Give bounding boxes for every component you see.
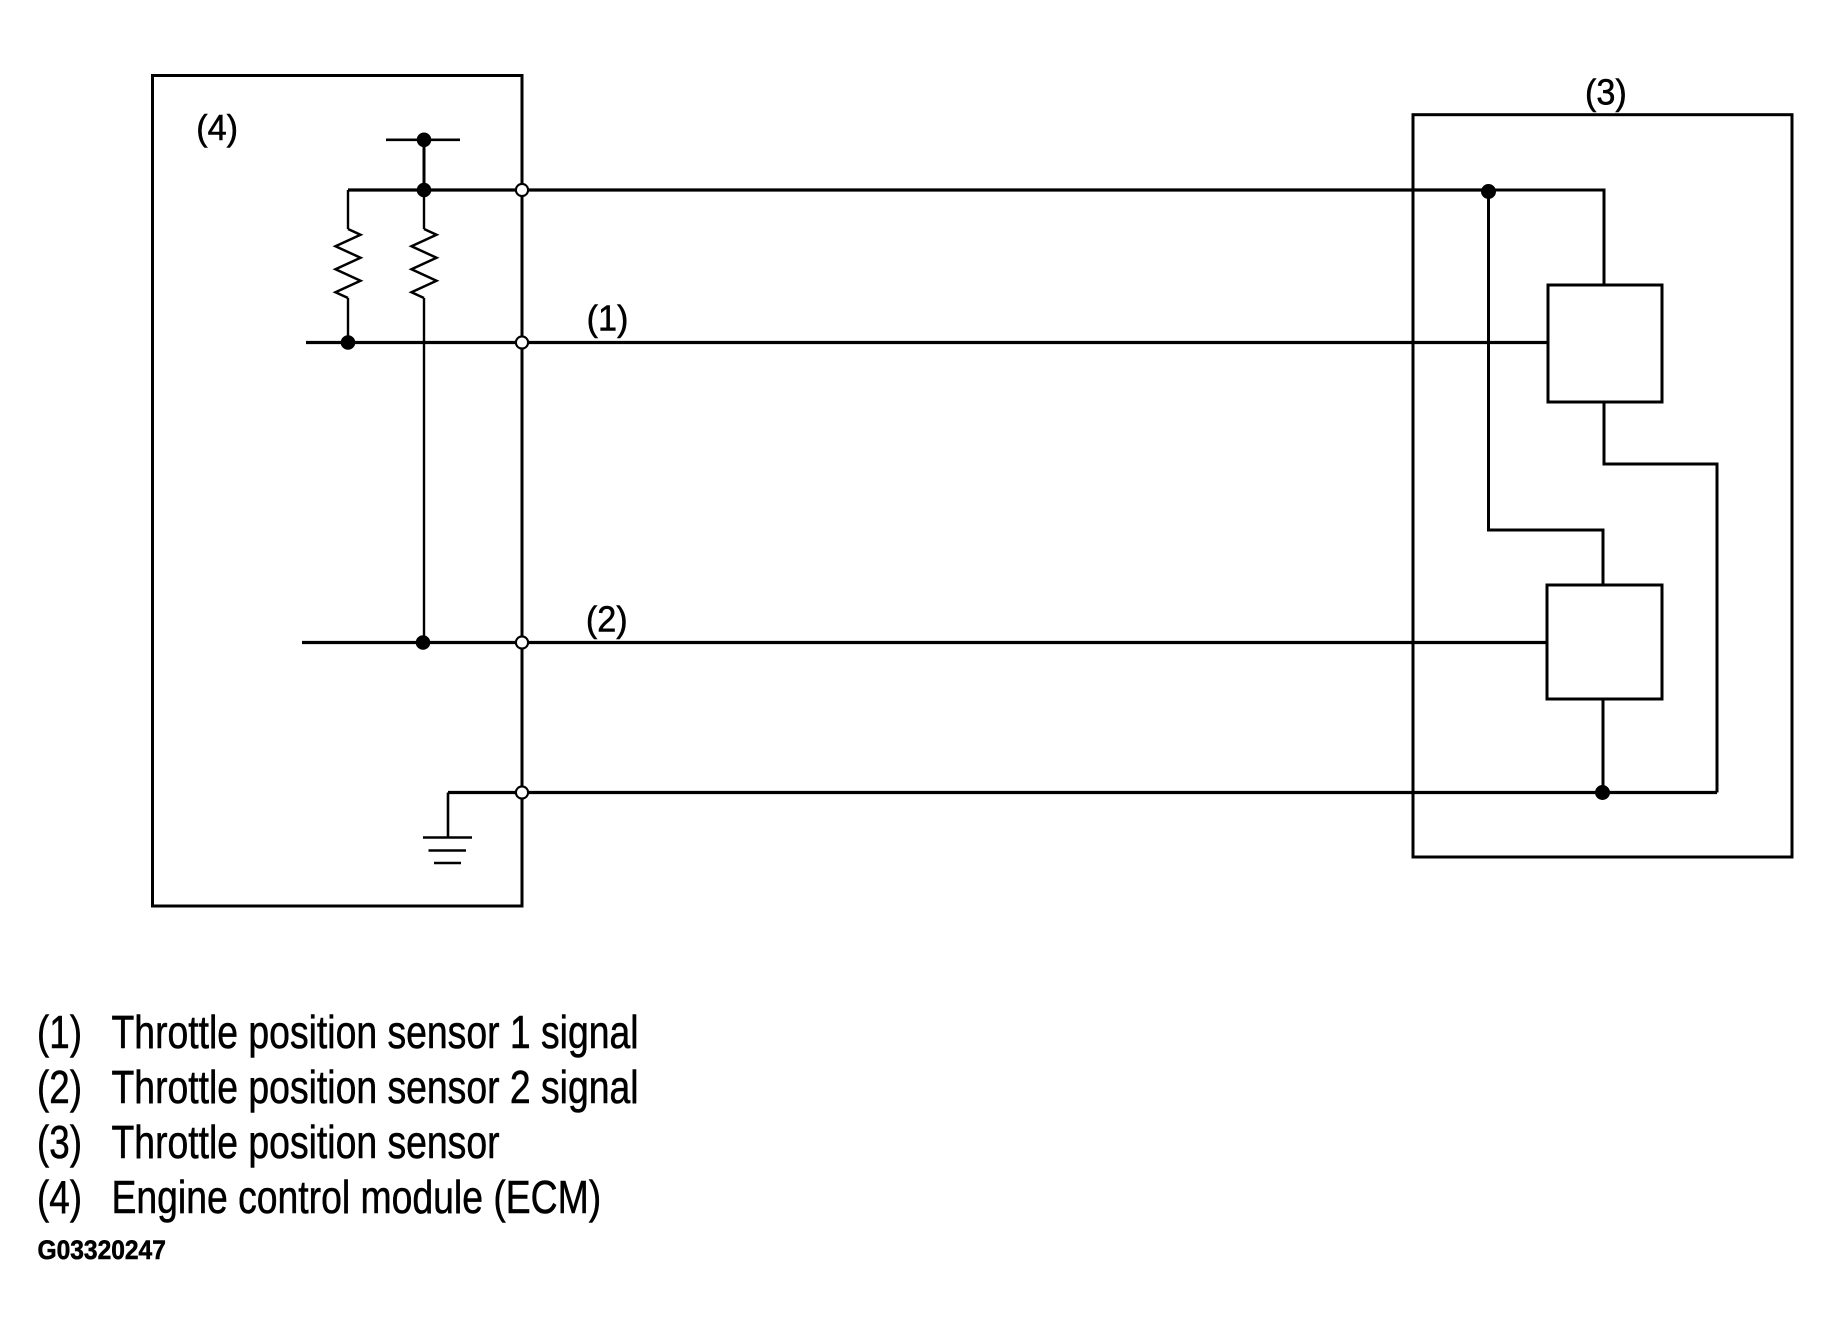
svg-text:(4): (4) <box>196 108 238 148</box>
resistor R2 <box>412 229 437 298</box>
svg-text:(1): (1) <box>37 1006 82 1058</box>
junction dot ground return <box>1595 785 1610 800</box>
svg-text:Engine control module (ECM): Engine control module (ECM) <box>112 1171 602 1223</box>
sensor element 2 box <box>1547 585 1662 699</box>
ECM pin circle ground <box>516 786 528 798</box>
wire R2 to node (2) <box>423 298 425 643</box>
svg-text:(3): (3) <box>1585 73 1627 113</box>
svg-text:(3): (3) <box>37 1116 82 1168</box>
wire supply to sensor element 1 <box>1489 190 1605 285</box>
svg-text:(2): (2) <box>586 600 628 640</box>
svg-text:(2): (2) <box>37 1061 82 1113</box>
svg-text:Throttle position sensor 1 sig: Throttle position sensor 1 signal <box>112 1006 639 1058</box>
wire (2) TP sensor 2 signal <box>302 641 1547 644</box>
ground return wire <box>448 791 1717 794</box>
junction dot on supply bar <box>417 133 432 148</box>
wire sensor element 2 to ground junction <box>1602 699 1605 793</box>
junction dot R2 on wire (2) <box>416 635 431 650</box>
wire (1) TP sensor 1 signal <box>306 341 1548 344</box>
svg-text:Throttle position sensor 2 sig: Throttle position sensor 2 signal <box>112 1061 639 1113</box>
resistor R1 <box>336 229 361 298</box>
TPS box (3) outline <box>1413 115 1792 857</box>
svg-text:(1): (1) <box>587 299 629 339</box>
wire supply to sensor element 2 <box>1489 190 1604 585</box>
svg-text:(4): (4) <box>37 1171 82 1223</box>
junction dot R1 on wire (1) <box>341 335 356 350</box>
ground symbol <box>423 793 472 864</box>
ECM box (4) outline <box>153 76 523 907</box>
wire rail corner down to resistor R1 <box>347 190 349 229</box>
svg-text:Throttle position sensor: Throttle position sensor <box>112 1116 500 1168</box>
junction dot supply inside TPS <box>1481 184 1496 199</box>
ECM pin circle signal 1 <box>516 336 528 348</box>
ECM pin circle signal 2 <box>516 636 528 648</box>
wire rail node down to resistor R2 <box>423 190 425 229</box>
ECM pin circle supply <box>516 184 528 196</box>
supply rail bar <box>386 139 460 142</box>
wire sensor element 1 to ground return <box>1604 402 1717 793</box>
wire supply bar to rail node <box>423 140 426 190</box>
wire supply rail to TPS <box>348 188 1489 191</box>
svg-text:G03320247: G03320247 <box>38 1236 166 1265</box>
sensor element 1 box <box>1548 285 1662 402</box>
wire R1 to node (1) <box>347 298 349 343</box>
junction dot supply rail node <box>417 183 432 198</box>
